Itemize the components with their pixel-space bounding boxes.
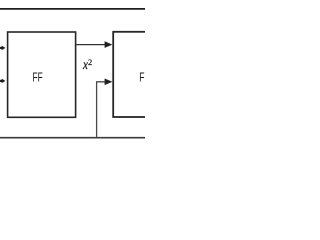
svg-text:FF: FF <box>32 71 42 85</box>
svg-text:2: 2 <box>88 58 92 67</box>
svg-text:F: F <box>139 71 144 85</box>
